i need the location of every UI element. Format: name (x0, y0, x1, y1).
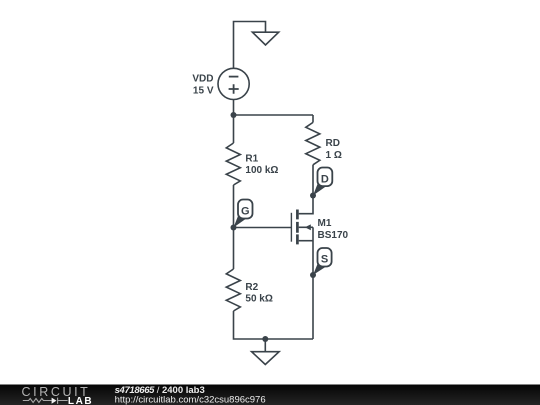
svg-text:VDD: VDD (192, 74, 213, 85)
svg-text:50 kΩ: 50 kΩ (245, 294, 272, 305)
svg-text:15 V: 15 V (193, 86, 214, 97)
svg-text:BS170: BS170 (318, 230, 349, 241)
svg-text:R1: R1 (245, 153, 258, 164)
svg-text:G: G (241, 206, 250, 218)
svg-text:1 Ω: 1 Ω (326, 150, 342, 161)
svg-text:http://circuitlab.com/c32csu89: http://circuitlab.com/c32csu896c976 (115, 394, 266, 405)
svg-text:M1: M1 (318, 218, 332, 229)
svg-text:D: D (321, 174, 329, 186)
svg-text:RD: RD (326, 138, 340, 149)
svg-text:100 kΩ: 100 kΩ (245, 165, 278, 176)
svg-text:S: S (321, 254, 328, 266)
svg-text:R2: R2 (245, 282, 258, 293)
svg-text:LAB: LAB (68, 396, 93, 405)
